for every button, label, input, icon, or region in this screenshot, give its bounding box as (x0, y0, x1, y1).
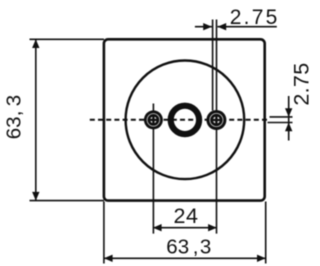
wire right 2.75 extension lower (268, 122, 293, 124)
svg-text:2.75: 2.75 (289, 63, 313, 106)
wire extension line A (top 2.75, left) (212, 20, 214, 111)
arrowhead right 2.75 upper (points down) (285, 108, 292, 117)
wire left dimension line 63,3 (35, 39, 37, 200)
arrowhead 24 right (208, 224, 217, 231)
wire top 2.75 dimension line right part (218, 26, 277, 28)
arrowhead 24 left (153, 224, 162, 231)
wire extension line left hole down to 24 dim (152, 104, 154, 234)
node plate outline (rounded square 63,3 x 63,3) (104, 39, 265, 200)
wire right 2.75 dimension line (288, 96, 290, 141)
node large mounting circle (126, 61, 245, 180)
wire left dimension extension bottom (30, 200, 105, 202)
node right small hole (206, 110, 226, 130)
arrowhead bottom dim left (104, 255, 113, 262)
arrowhead bottom dim right (257, 255, 266, 262)
arrowhead left dim bottom (32, 192, 39, 201)
wire bottom dimension extension left (103, 202, 105, 264)
wire bottom dimension extension right (265, 202, 267, 264)
node left small hole (144, 110, 163, 129)
wire bottom dimension line 63,3 (104, 257, 266, 259)
svg-text:24: 24 (174, 204, 199, 228)
svg-text:2.75: 2.75 (230, 6, 280, 29)
wire right 2.75 extension upper (270, 116, 293, 118)
arrowhead left dim top (32, 39, 39, 48)
wire top 2.75 dimension line left tail (195, 26, 212, 28)
arrowhead top 2.75 right (points left) (218, 23, 227, 30)
svg-text:63,3: 63,3 (2, 95, 25, 139)
arrowhead right 2.75 lower (points up) (285, 123, 292, 132)
arrowhead top 2.75 left (points right) (203, 23, 212, 30)
wire extension line B (top 2.75 through right hole, down to 24 dim) (216, 20, 218, 234)
wire 24 dimension line (153, 227, 217, 229)
node central ring connector (171, 106, 199, 134)
svg-text:63,3: 63,3 (166, 235, 211, 258)
wire left dimension extension top (30, 38, 105, 40)
wire horizontal dash-dot centerline (90, 119, 268, 121)
